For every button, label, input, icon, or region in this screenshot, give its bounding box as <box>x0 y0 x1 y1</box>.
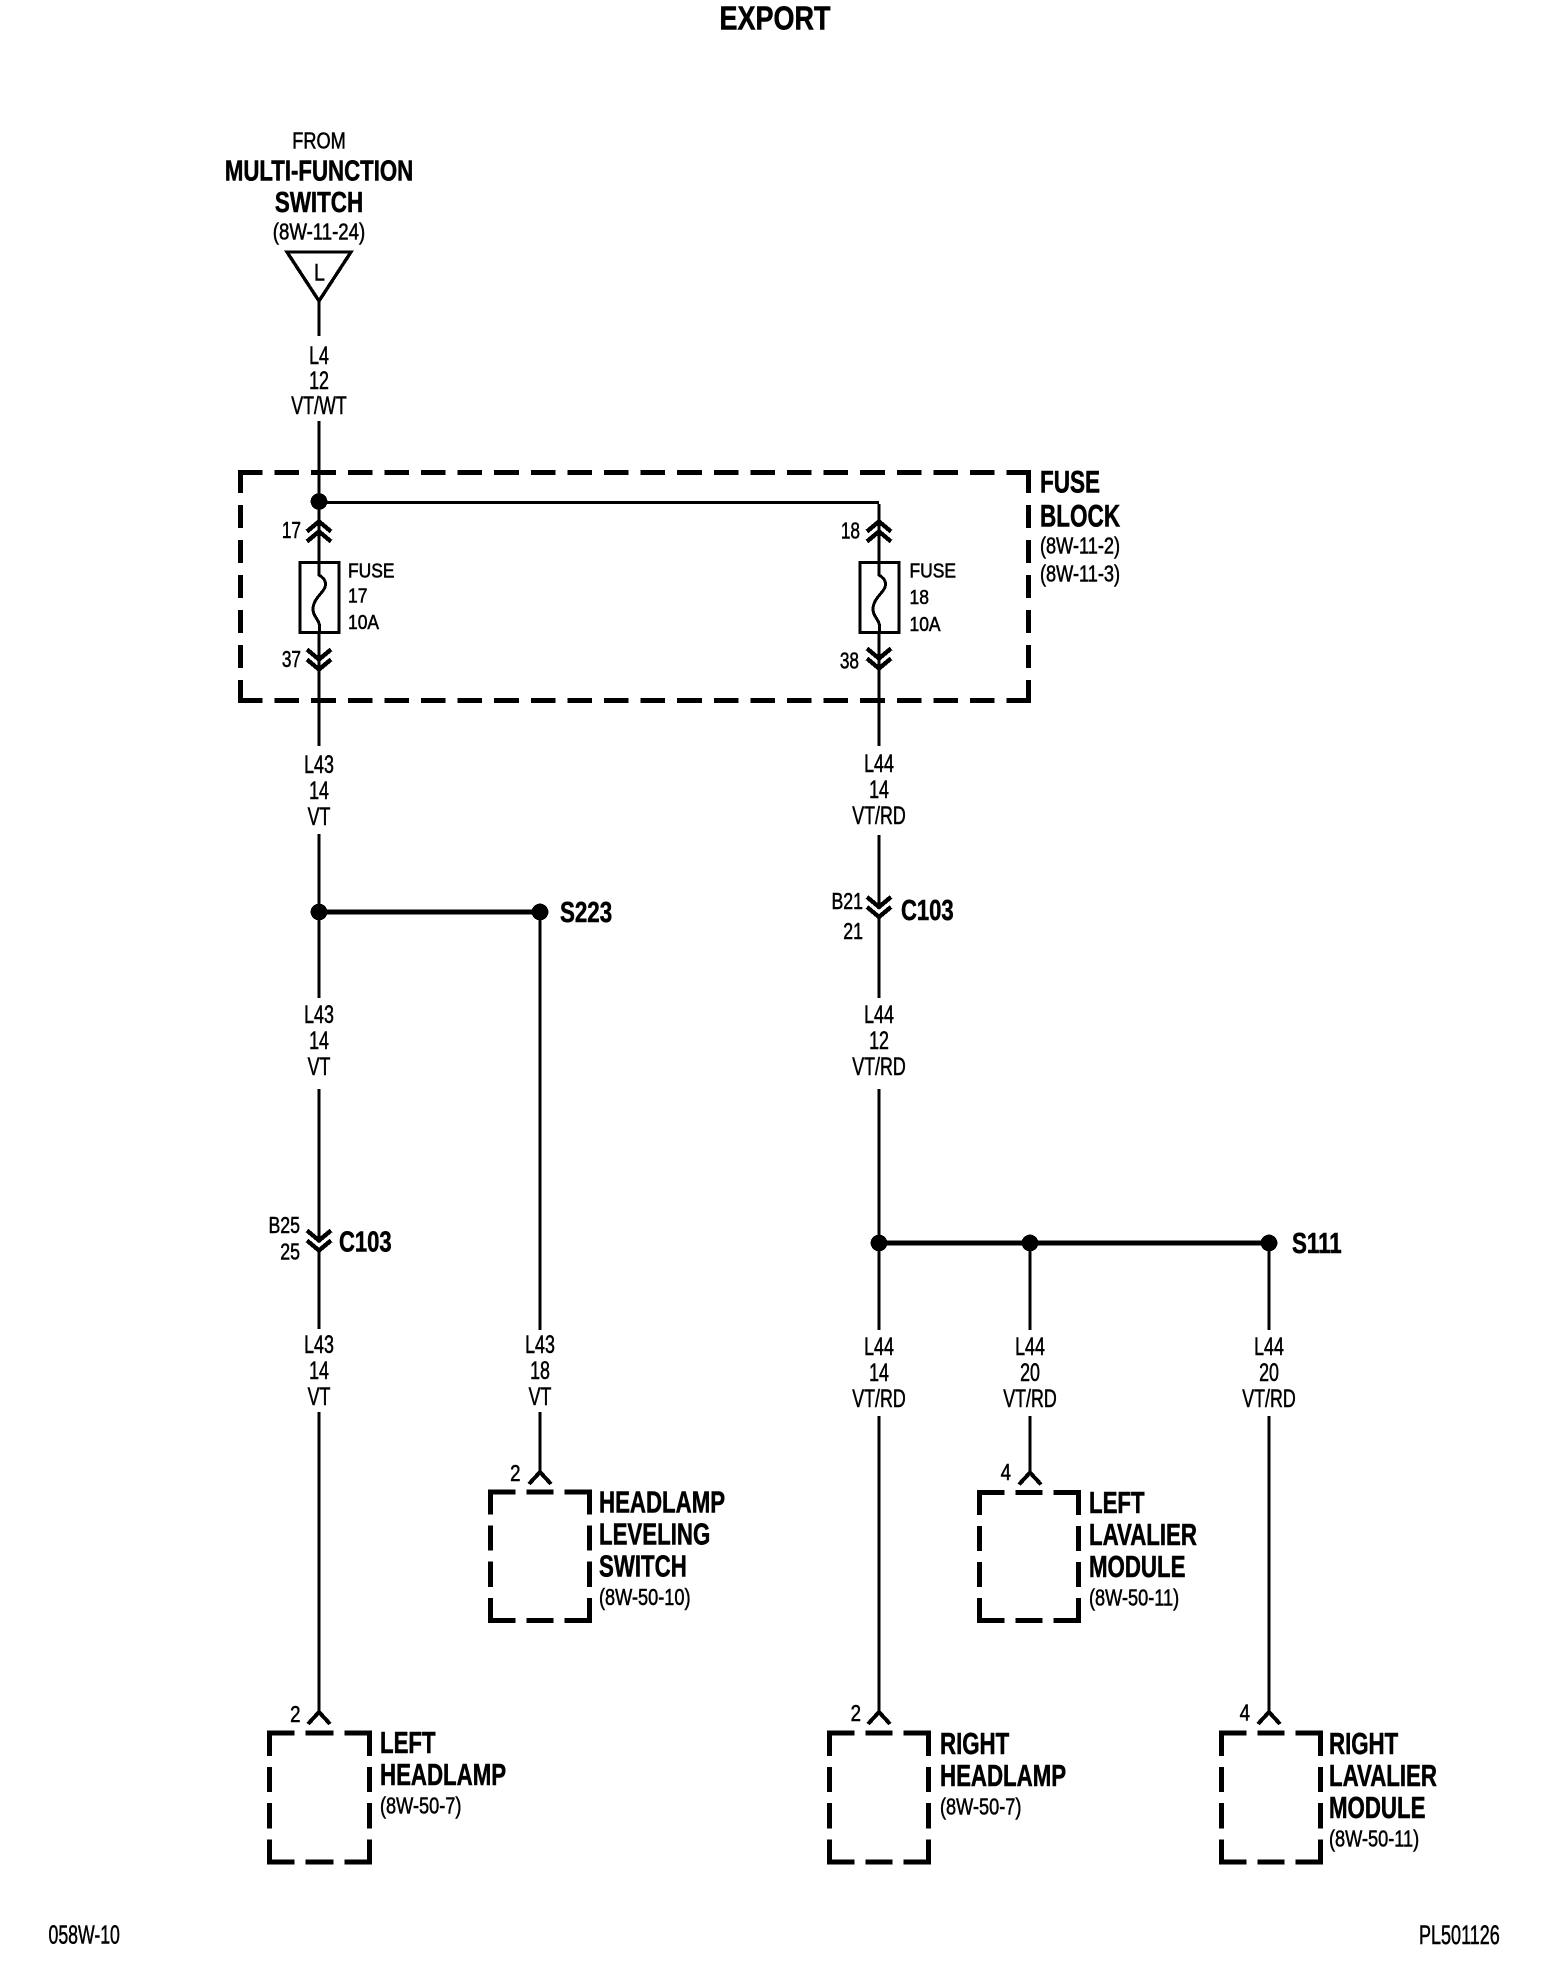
svg-text:18: 18 <box>841 518 860 544</box>
svg-text:FUSE: FUSE <box>1040 464 1100 500</box>
svg-text:18: 18 <box>530 1357 550 1384</box>
svg-text:L44: L44 <box>864 1333 894 1360</box>
svg-text:SWITCH: SWITCH <box>599 1549 687 1583</box>
svg-text:VT/RD: VT/RD <box>852 1385 905 1412</box>
svg-text:L44: L44 <box>1254 1333 1284 1360</box>
svg-text:FUSE: FUSE <box>348 560 395 583</box>
svg-text:MODULE: MODULE <box>1329 1791 1425 1825</box>
svg-text:RIGHT: RIGHT <box>940 1727 1010 1761</box>
svg-text:LEFT: LEFT <box>380 1726 436 1760</box>
svg-text:LAVALIER: LAVALIER <box>1089 1518 1197 1552</box>
svg-text:HEADLAMP: HEADLAMP <box>940 1759 1066 1793</box>
svg-text:L4: L4 <box>309 342 329 369</box>
svg-text:14: 14 <box>869 776 889 803</box>
svg-text:L44: L44 <box>864 750 894 777</box>
svg-text:FROM: FROM <box>292 128 345 154</box>
svg-text:EXPORT: EXPORT <box>720 1 831 37</box>
svg-text:17: 17 <box>282 518 301 544</box>
svg-text:VT/RD: VT/RD <box>1242 1385 1295 1412</box>
svg-text:VT: VT <box>308 1383 331 1410</box>
svg-text:(8W-50-11): (8W-50-11) <box>1089 1586 1179 1612</box>
svg-text:HEADLAMP: HEADLAMP <box>599 1485 725 1519</box>
svg-text:VT: VT <box>529 1383 552 1410</box>
svg-text:14: 14 <box>309 777 329 804</box>
svg-text:VT: VT <box>308 1053 331 1080</box>
svg-text:VT: VT <box>308 803 331 830</box>
svg-text:2: 2 <box>290 1702 300 1727</box>
svg-text:37: 37 <box>282 647 301 673</box>
svg-text:(8W-11-2): (8W-11-2) <box>1040 534 1120 560</box>
svg-text:C103: C103 <box>901 895 954 927</box>
svg-text:(8W-50-7): (8W-50-7) <box>380 1794 461 1820</box>
svg-text:14: 14 <box>869 1359 889 1386</box>
svg-text:20: 20 <box>1259 1359 1279 1386</box>
svg-text:B21: B21 <box>831 889 863 915</box>
svg-text:(8W-50-11): (8W-50-11) <box>1329 1827 1419 1853</box>
svg-text:L44: L44 <box>1015 1333 1045 1360</box>
svg-text:12: 12 <box>309 367 329 394</box>
svg-text:HEADLAMP: HEADLAMP <box>380 1758 506 1792</box>
svg-text:14: 14 <box>309 1357 329 1384</box>
svg-text:MULTI-FUNCTION: MULTI-FUNCTION <box>225 156 413 187</box>
svg-text:L43: L43 <box>304 1001 334 1028</box>
svg-text:FUSE: FUSE <box>910 560 957 583</box>
svg-text:LEVELING: LEVELING <box>599 1517 710 1551</box>
svg-text:25: 25 <box>280 1239 300 1265</box>
svg-text:20: 20 <box>1020 1359 1040 1386</box>
svg-text:10A: 10A <box>348 612 379 635</box>
svg-text:S223: S223 <box>560 897 612 928</box>
svg-text:(8W-50-10): (8W-50-10) <box>599 1585 690 1611</box>
svg-text:38: 38 <box>840 648 859 674</box>
svg-text:17: 17 <box>348 585 367 608</box>
svg-text:L43: L43 <box>304 751 334 778</box>
svg-text:PL501126: PL501126 <box>1419 1919 1500 1949</box>
svg-text:(8W-11-24): (8W-11-24) <box>273 220 365 245</box>
svg-text:14: 14 <box>309 1027 329 1054</box>
svg-text:B25: B25 <box>268 1213 300 1239</box>
svg-text:MODULE: MODULE <box>1089 1550 1185 1584</box>
svg-text:2: 2 <box>510 1461 520 1486</box>
svg-text:BLOCK: BLOCK <box>1040 498 1120 534</box>
svg-text:S111: S111 <box>1292 1228 1342 1259</box>
svg-text:L44: L44 <box>864 1001 894 1028</box>
svg-text:058W-10: 058W-10 <box>49 1920 120 1949</box>
svg-text:VT/RD: VT/RD <box>852 802 905 829</box>
svg-text:21: 21 <box>843 919 863 945</box>
svg-text:L43: L43 <box>525 1331 555 1358</box>
svg-text:L: L <box>314 258 325 286</box>
svg-text:18: 18 <box>910 587 929 610</box>
svg-text:LAVALIER: LAVALIER <box>1329 1759 1437 1793</box>
svg-text:2: 2 <box>851 1701 861 1726</box>
svg-text:VT/RD: VT/RD <box>852 1053 905 1080</box>
svg-text:SWITCH: SWITCH <box>275 188 363 219</box>
svg-text:L43: L43 <box>304 1331 334 1358</box>
svg-text:4: 4 <box>1240 1701 1251 1726</box>
svg-text:VT/RD: VT/RD <box>1003 1385 1056 1412</box>
svg-text:12: 12 <box>869 1027 889 1054</box>
svg-text:VT/WT: VT/WT <box>291 392 346 419</box>
svg-text:4: 4 <box>1001 1460 1012 1485</box>
svg-text:(8W-11-3): (8W-11-3) <box>1040 562 1120 588</box>
svg-text:10A: 10A <box>910 614 941 637</box>
svg-text:LEFT: LEFT <box>1089 1486 1145 1520</box>
svg-text:RIGHT: RIGHT <box>1329 1727 1399 1761</box>
svg-text:C103: C103 <box>339 1227 392 1259</box>
svg-text:(8W-50-7): (8W-50-7) <box>940 1795 1021 1821</box>
